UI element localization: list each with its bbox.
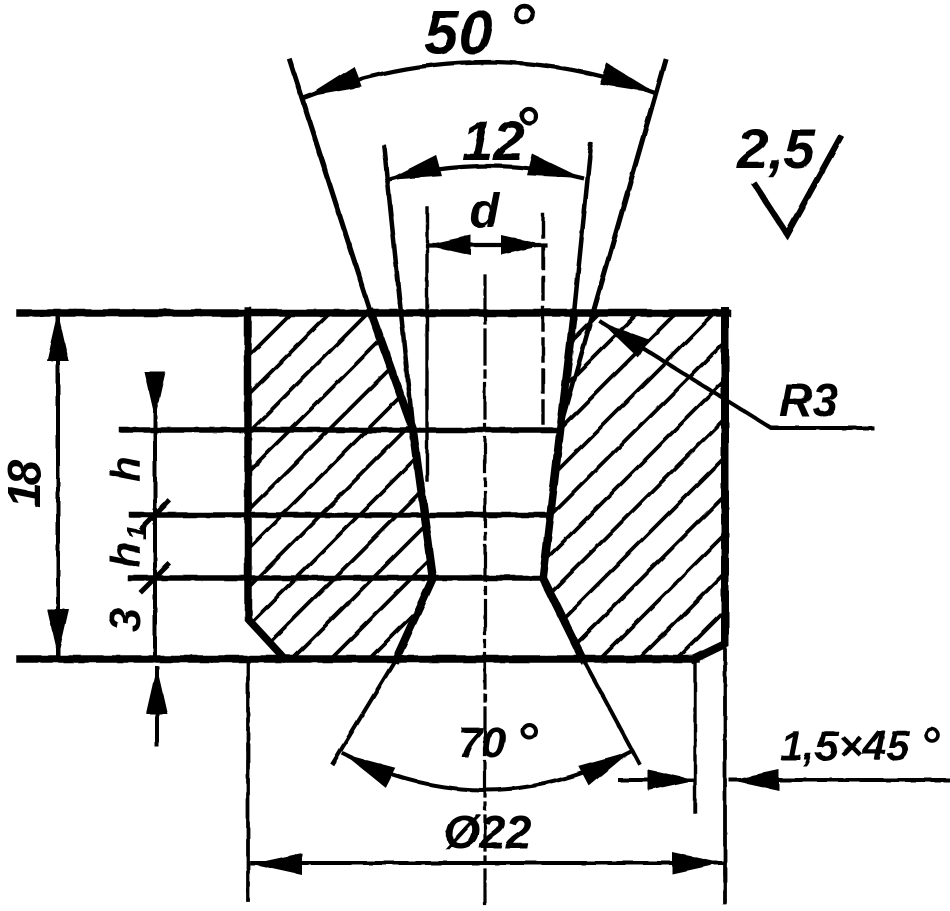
svg-text:70: 70 bbox=[458, 719, 506, 767]
svg-text:1,5×45: 1,5×45 bbox=[780, 722, 910, 769]
svg-text:18: 18 bbox=[0, 459, 50, 508]
svg-text:2,5: 2,5 bbox=[736, 117, 816, 180]
svg-text:h: h bbox=[102, 456, 149, 482]
svg-text:12: 12 bbox=[462, 109, 524, 172]
svg-text:h: h bbox=[102, 542, 149, 568]
svg-text:Ø22: Ø22 bbox=[444, 806, 531, 858]
svg-text:d: d bbox=[470, 185, 501, 238]
svg-text:R3: R3 bbox=[779, 374, 838, 426]
svg-text:1: 1 bbox=[121, 524, 152, 540]
svg-text:50: 50 bbox=[424, 0, 493, 68]
svg-text:3: 3 bbox=[101, 608, 150, 632]
